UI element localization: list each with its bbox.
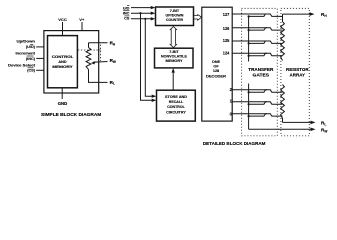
svg-text:126: 126: [223, 26, 230, 31]
svg-text:(U/D): (U/D): [26, 45, 36, 49]
svg-text:ARRAY: ARRAY: [290, 72, 306, 77]
svg-text:AND: AND: [58, 60, 66, 64]
wire CS to counter: [131, 18, 153, 20]
svg-text:COUNTER: COUNTER: [166, 18, 183, 22]
transfer gate Q0: [232, 114, 282, 118]
potentiometer R1 bottom lead to RL: [89, 70, 108, 83]
transfer gate Q1: [232, 102, 282, 105]
wire INC stub: [36, 57, 44, 59]
IC outer box U1: [44, 31, 99, 93]
potentiometer R1 top lead to RH: [88, 43, 90, 48]
block CONTROL AND MEMORY: [48, 36, 78, 88]
svg-text:CS: CS: [124, 17, 130, 21]
svg-text:U/D: U/D: [123, 6, 130, 10]
junction dot INC branch: [139, 12, 141, 14]
svg-text:CIRCUITRY: CIRCUITRY: [166, 110, 186, 114]
wire U/D to counter: [131, 7, 153, 9]
transfer gate Q124: [232, 53, 282, 57]
bus arrow counter/memory (bidirectional hollow): [170, 27, 177, 48]
block ONE OF 128 DECODER: [202, 7, 232, 121]
svg-text:CONTROL: CONTROL: [167, 105, 185, 109]
svg-text:UP/DOWN: UP/DOWN: [166, 13, 184, 17]
transfer gate Q125: [232, 41, 282, 45]
svg-text:MEMORY: MEMORY: [166, 59, 183, 63]
wire U/D stub: [36, 46, 44, 48]
block 7-BIT NONVOLATILE MEMORY: [155, 48, 194, 68]
dashed control link to wiper: [78, 49, 101, 51]
svg-text:RW: RW: [110, 58, 116, 64]
transfer gate Q127: [232, 14, 282, 18]
svg-text:DETAILED BLOCK DIAGRAM: DETAILED BLOCK DIAGRAM: [203, 141, 266, 146]
svg-text:RESISTOR: RESISTOR: [286, 67, 309, 72]
svg-text:GND: GND: [58, 101, 68, 106]
svg-text:MEMORY: MEMORY: [52, 65, 73, 69]
svg-text:GATES: GATES: [253, 72, 270, 77]
transfer gate Q2: [232, 90, 282, 93]
svg-text:CONTROL: CONTROL: [52, 55, 74, 59]
svg-text:OF: OF: [213, 65, 219, 69]
resistor array chain upper: [281, 14, 285, 60]
block STORE AND RECALL CONTROL CIRCUITRY: [157, 90, 196, 121]
svg-text:SIMPLE BLOCK DIAGRAM: SIMPLE BLOCK DIAGRAM: [41, 112, 101, 117]
wiper arrow W1: [93, 61, 108, 64]
wire store/recall to memory: [172, 71, 174, 91]
svg-text:124: 124: [223, 51, 230, 56]
svg-text:RW: RW: [321, 128, 327, 134]
svg-text:INC: INC: [123, 12, 130, 16]
svg-text:125: 125: [223, 38, 230, 43]
resistor array chain lower: [281, 85, 285, 123]
svg-text:(CS): (CS): [27, 69, 36, 73]
wire INC branch down to store/recall: [141, 13, 154, 100]
wire INC to counter: [131, 12, 153, 14]
block 7-BIT UP/DOWN COUNTER: [156, 7, 194, 26]
terminal RW wire and arrow: [249, 128, 312, 130]
wire V+ stem: [81, 22, 83, 31]
svg-text:7-BIT: 7-BIT: [169, 50, 179, 54]
svg-text:RECALL: RECALL: [169, 100, 184, 104]
svg-text:(INC): (INC): [26, 57, 36, 61]
svg-text:127: 127: [223, 12, 230, 17]
dotted box TRANSFER GATES: [242, 8, 278, 135]
transfer gate Q126: [232, 28, 282, 32]
terminal RH wire and arrow: [283, 13, 312, 15]
svg-text:Up/Down: Up/Down: [17, 40, 36, 44]
svg-text:V+: V+: [79, 17, 85, 22]
junction dot CS branch: [144, 18, 146, 20]
svg-text:128: 128: [213, 69, 219, 73]
svg-text:Device Select: Device Select: [8, 63, 36, 67]
wire CS branch down to store/recall: [145, 19, 153, 96]
wiper bus vertical: [248, 16, 250, 129]
svg-text:STORE AND: STORE AND: [165, 95, 187, 99]
terminal RL wire and arrow: [283, 121, 313, 123]
svg-text:RL: RL: [321, 121, 326, 127]
svg-text:ONE: ONE: [212, 60, 221, 64]
dotted box RESISTOR ARRAY: [281, 8, 309, 135]
wire CS stub: [36, 69, 44, 71]
potentiometer R1 zigzag body: [86, 48, 91, 70]
svg-text:RH: RH: [321, 12, 327, 18]
svg-text:RH: RH: [110, 41, 116, 47]
bus arrow counter to decoder: [194, 14, 202, 20]
svg-text:Increment: Increment: [16, 51, 36, 55]
svg-text:DECODER: DECODER: [206, 73, 226, 78]
wire VCC stem: [62, 22, 64, 36]
svg-text:VCC: VCC: [58, 17, 67, 22]
svg-text:TRANSFER: TRANSFER: [248, 67, 273, 72]
wire GND stem: [61, 88, 63, 99]
svg-text:RL: RL: [110, 80, 115, 86]
svg-text:NONVOLATILE: NONVOLATILE: [161, 54, 187, 58]
svg-text:7-BIT: 7-BIT: [170, 9, 180, 13]
